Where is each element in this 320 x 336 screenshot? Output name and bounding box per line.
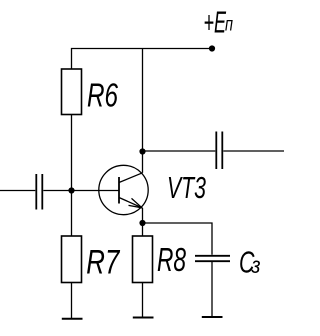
svg-text:R8: R8 — [157, 241, 186, 278]
svg-text:VT3: VT3 — [167, 170, 206, 205]
svg-text:з: з — [251, 252, 261, 278]
svg-text:R7: R7 — [86, 243, 120, 281]
svg-text:п: п — [225, 15, 233, 36]
svg-text:R6: R6 — [87, 76, 118, 113]
svg-text:+E: +E — [204, 4, 227, 39]
